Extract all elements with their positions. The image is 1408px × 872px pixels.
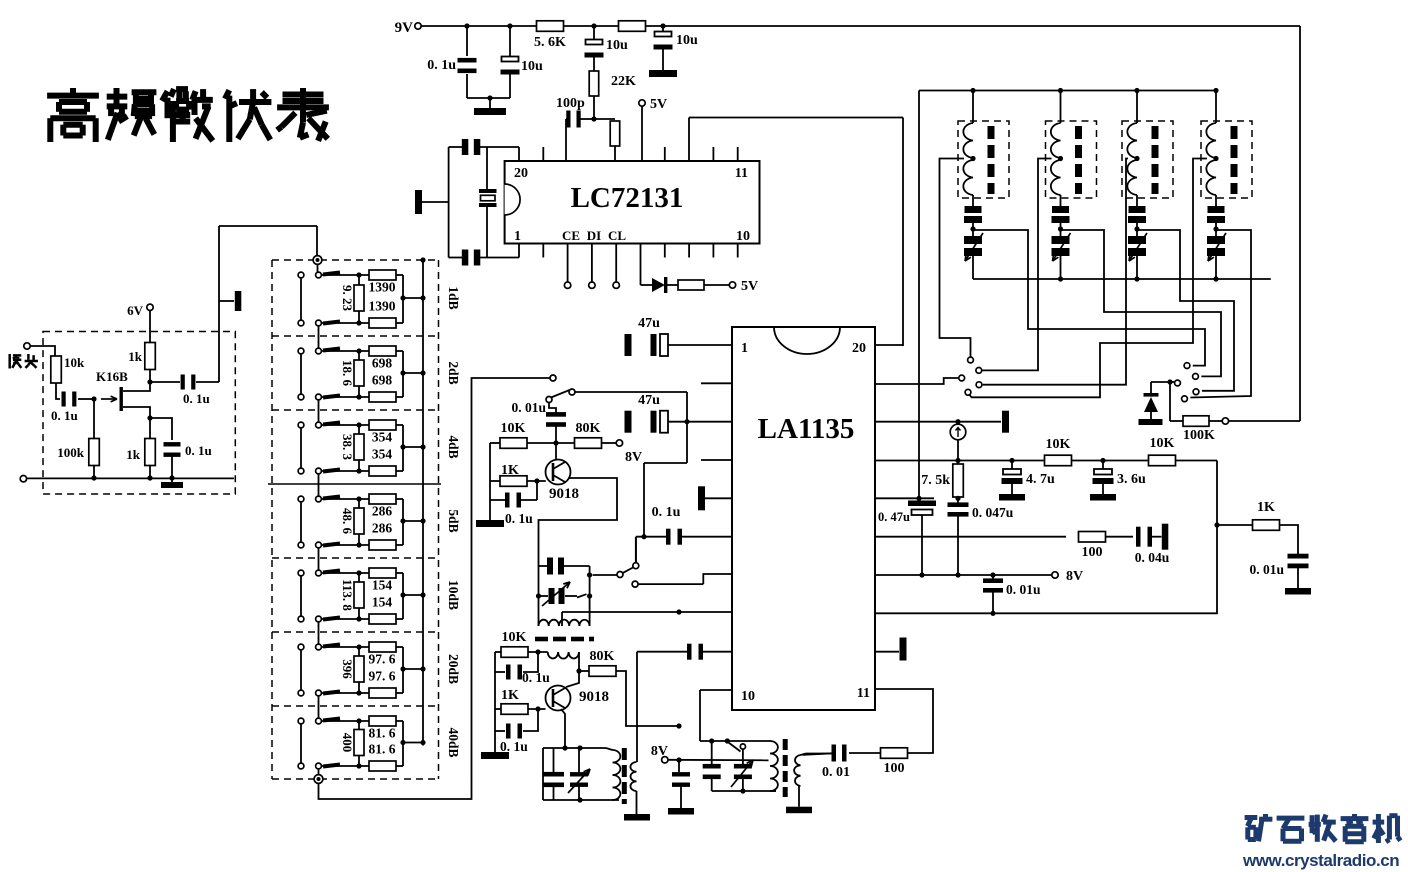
svg-text:2dB: 2dB [446, 361, 461, 384]
svg-text:0. 1u: 0. 1u [522, 670, 550, 685]
svg-text:5V: 5V [650, 97, 667, 112]
svg-text:11: 11 [735, 166, 748, 181]
svg-text:5V: 5V [741, 279, 758, 294]
svg-text:9. 23: 9. 23 [340, 285, 355, 312]
svg-text:47u: 47u [638, 393, 660, 408]
svg-text:1: 1 [514, 229, 521, 244]
svg-text:396: 396 [340, 659, 355, 679]
svg-text:20: 20 [514, 166, 528, 181]
svg-text:0. 04u: 0. 04u [1135, 550, 1170, 565]
svg-text:0. 01u: 0. 01u [511, 400, 546, 415]
svg-text:100K: 100K [1183, 428, 1215, 443]
svg-text:8V: 8V [1066, 569, 1083, 584]
svg-text:20: 20 [852, 341, 866, 356]
svg-text:100k: 100k [57, 445, 85, 460]
svg-text:1dB: 1dB [446, 286, 461, 309]
svg-text:CL: CL [608, 228, 626, 243]
svg-text:0. 1u: 0. 1u [505, 511, 533, 526]
svg-text:100p: 100p [556, 96, 585, 111]
svg-text:0. 1u: 0. 1u [500, 739, 528, 754]
svg-text:80K: 80K [576, 421, 601, 436]
svg-text:1390: 1390 [369, 280, 396, 295]
svg-text:1K: 1K [1257, 500, 1275, 515]
svg-text:40dB: 40dB [446, 727, 461, 757]
svg-text:10K: 10K [1046, 437, 1071, 452]
svg-text:38. 3: 38. 3 [340, 434, 355, 461]
svg-text:1: 1 [741, 341, 748, 356]
svg-text:7. 5k: 7. 5k [921, 473, 950, 488]
svg-text:0. 47u: 0. 47u [878, 510, 910, 524]
svg-text:286: 286 [372, 521, 393, 536]
svg-text:1K: 1K [501, 688, 519, 703]
svg-text:698: 698 [372, 356, 393, 371]
svg-text:286: 286 [372, 504, 393, 519]
svg-text:18. 6: 18. 6 [340, 360, 355, 387]
svg-text:0. 1u: 0. 1u [427, 58, 456, 73]
svg-text:10u: 10u [521, 59, 543, 74]
svg-text:81. 6: 81. 6 [369, 742, 396, 757]
svg-text:1k: 1k [126, 447, 141, 462]
svg-text:22K: 22K [611, 74, 636, 89]
svg-text:9V: 9V [395, 20, 414, 36]
svg-text:20dB: 20dB [446, 654, 461, 684]
svg-text:0. 1u: 0. 1u [183, 391, 210, 406]
svg-text:100: 100 [1082, 545, 1103, 560]
svg-text:81. 6: 81. 6 [369, 726, 396, 741]
svg-text:154: 154 [372, 578, 393, 593]
svg-text:www.crystalradio.cn: www.crystalradio.cn [1242, 851, 1399, 870]
svg-text:0. 01: 0. 01 [822, 765, 850, 780]
svg-text:10: 10 [741, 689, 755, 704]
svg-text:97. 6: 97. 6 [369, 669, 396, 684]
svg-text:4. 7u: 4. 7u [1026, 472, 1055, 487]
svg-text:9018: 9018 [579, 689, 609, 705]
svg-text:80K: 80K [590, 649, 615, 664]
svg-text:97. 6: 97. 6 [369, 652, 396, 667]
svg-text:10K: 10K [501, 421, 526, 436]
svg-text:11: 11 [857, 686, 870, 701]
svg-text:354: 354 [372, 447, 393, 462]
svg-text:CE: CE [562, 228, 580, 243]
svg-text:3. 6u: 3. 6u [1117, 472, 1146, 487]
svg-text:LA1135: LA1135 [758, 413, 855, 445]
svg-text:10K: 10K [1150, 436, 1175, 451]
svg-text:LC72131: LC72131 [571, 182, 684, 214]
svg-text:10dB: 10dB [446, 580, 461, 610]
svg-text:354: 354 [372, 430, 393, 445]
svg-text:154: 154 [372, 595, 393, 610]
svg-text:8V: 8V [651, 744, 668, 759]
svg-text:47u: 47u [638, 316, 660, 331]
svg-text:6V: 6V [127, 303, 144, 318]
svg-text:48. 6: 48. 6 [340, 508, 355, 535]
svg-text:400: 400 [340, 733, 355, 753]
svg-text:5dB: 5dB [446, 509, 461, 532]
svg-text:100: 100 [884, 761, 905, 776]
svg-text:0. 01u: 0. 01u [1006, 582, 1041, 597]
svg-text:DI: DI [587, 228, 601, 243]
svg-text:1390: 1390 [369, 299, 396, 314]
svg-text:0. 047u: 0. 047u [972, 505, 1014, 520]
svg-text:0. 1u: 0. 1u [51, 408, 78, 423]
svg-text:K16B: K16B [96, 369, 128, 384]
svg-text:8V: 8V [625, 450, 642, 465]
svg-text:1k: 1k [128, 349, 143, 364]
svg-text:10: 10 [736, 229, 750, 244]
svg-text:113. 8: 113. 8 [340, 579, 355, 611]
svg-text:1K: 1K [501, 463, 519, 478]
svg-text:9018: 9018 [549, 486, 579, 502]
svg-text:0. 1u: 0. 1u [652, 505, 681, 520]
svg-text:0. 1u: 0. 1u [185, 443, 212, 458]
svg-text:10u: 10u [606, 38, 628, 53]
svg-text:10u: 10u [676, 33, 698, 48]
svg-text:698: 698 [372, 373, 393, 388]
svg-text:0. 01u: 0. 01u [1249, 562, 1284, 577]
svg-text:5. 6K: 5. 6K [534, 35, 566, 50]
svg-text:10k: 10k [64, 355, 85, 370]
svg-text:4dB: 4dB [446, 435, 461, 458]
svg-text:10K: 10K [502, 630, 527, 645]
